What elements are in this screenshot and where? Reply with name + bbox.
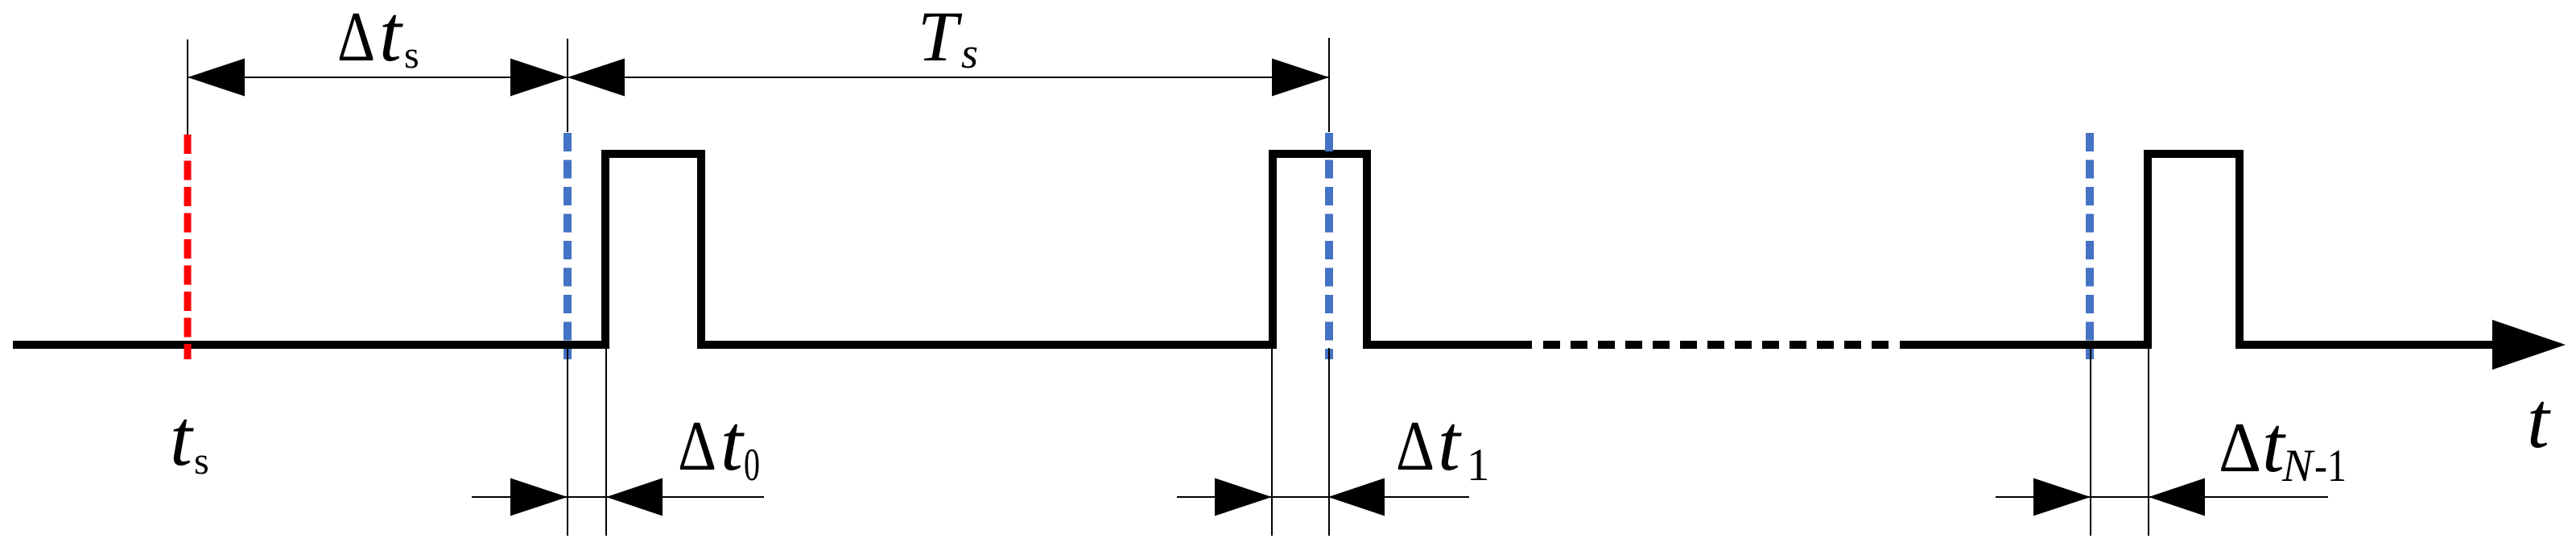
svg-text:1: 1 [1467,440,1490,491]
svg-text:t: t [2527,375,2551,465]
extension line below pulse 1 rising edge [605,348,607,536]
extension line above marker 1 [567,39,568,132]
svg-text:s: s [961,29,978,77]
svg-text:-1: -1 [2314,441,2347,491]
extension line above ts [187,39,188,135]
pulse 2 [1273,154,1367,349]
pulse 3 [2148,154,2240,349]
extension line below marker 3 [2090,348,2091,536]
arrow pointing left at pulse 1 edge [606,478,663,516]
wire: dashed continuation of baseline [1543,341,1891,349]
dimension line dtN-1 [1996,496,2328,498]
svg-text:s: s [404,34,419,77]
time axis arrowhead [2492,320,2566,370]
arrow left of Ts dimension [568,59,625,97]
wire: baseline segment left of pulse 3 [1900,341,2148,349]
wire: baseline segment between pulse 1 and pulse 2 [701,341,1273,349]
svg-text:Δ: Δ [1396,408,1435,486]
arrow pointing left at pulse 3 edge [2149,478,2205,516]
red dashed marker ts [184,135,192,359]
svg-text:t: t [170,393,194,483]
wire: baseline segment right of pulse 2 [1368,341,1532,349]
label delta-t-s [337,0,419,78]
label Ts [918,0,978,77]
blue dashed sampling marker 2 [1325,133,1333,359]
svg-text:0: 0 [744,440,760,491]
label ts [170,393,209,483]
label delta-t-0 [678,398,760,491]
svg-text:Δ: Δ [2219,409,2261,487]
top dimension line [188,77,1329,78]
wire: baseline segment left of pulse 1 [13,341,605,349]
arrow right of Ts dimension [1272,59,1329,97]
arrow pointing right at pulse 2 edge [1215,478,1272,516]
extension line below marker 1 [567,348,568,536]
svg-text:t: t [720,398,745,487]
svg-text:s: s [194,440,209,483]
pulse 1 [605,154,701,349]
svg-text:Δ: Δ [678,408,716,486]
extension line below pulse 3 rising edge [2148,348,2149,536]
arrow pointing right at marker 1 [510,478,568,516]
blue dashed sampling marker 1 [563,133,572,359]
arrow left of dts dimension [188,59,245,97]
svg-text:Δ: Δ [337,0,375,77]
dimension line dt0 [472,496,764,498]
label delta-t-N-1 [2219,400,2347,491]
arrow pointing right at marker 3 [2033,478,2091,516]
blue dashed sampling marker 3 [2086,133,2094,359]
label delta-t-1 [1396,398,1490,491]
extension line above marker 2 [1328,38,1330,132]
svg-text:t: t [379,0,403,78]
arrow pointing left at marker 2 [1328,478,1385,516]
wire: baseline segment right of pulse 3 [2240,341,2495,349]
arrow right of dts dimension [510,59,568,97]
svg-text:t: t [1438,398,1462,487]
svg-text:T: T [918,0,963,77]
extension line below pulse 2 rising edge [1271,348,1273,536]
dimension line dt1 [1177,496,1469,498]
svg-text:N: N [2281,441,2315,491]
extension line below marker 2 [1328,348,1330,536]
